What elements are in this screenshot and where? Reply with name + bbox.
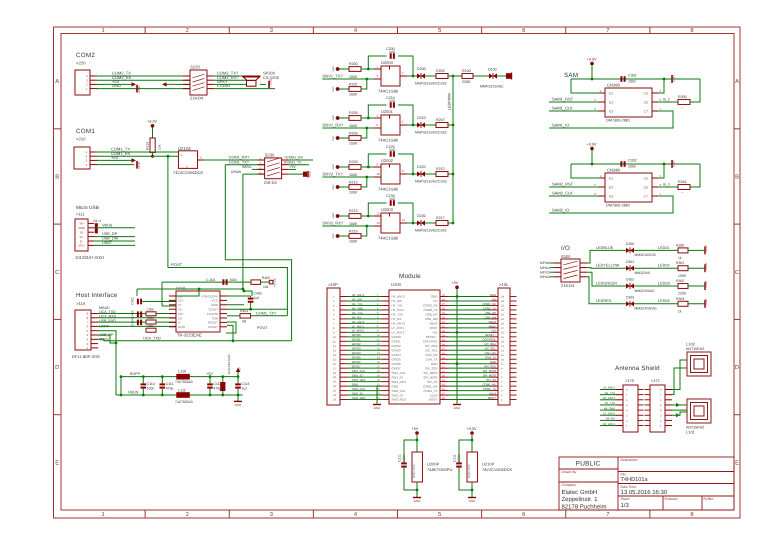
svg-text:COM1_TX?: COM1_TX? — [256, 311, 276, 315]
module pin row 3 — [348, 304, 382, 306]
svg-text:MM3Z16VC/D: MM3Z16VC/D — [635, 253, 657, 257]
svg-text:C113: C113 — [242, 382, 250, 386]
wire host top — [137, 288, 243, 290]
wire gate out — [400, 124, 407, 126]
svg-text:Module: Module — [399, 273, 421, 280]
svg-text:I2C_SCL: I2C_SCL — [485, 347, 497, 351]
resistor R402 — [146, 312, 156, 316]
resistor R112 — [95, 223, 98, 233]
wire to L101 c — [672, 412, 687, 415]
svg-text:COM1_TX?: COM1_TX? — [229, 160, 249, 164]
buffer U210P — [467, 452, 478, 482]
svg-text:Date Time:: Date Time: — [621, 485, 637, 489]
svg-text:C1+: C1+ — [178, 299, 184, 303]
svg-text:PUBLIC: PUBLIC — [576, 460, 601, 467]
wire rail bottom — [116, 394, 243, 396]
svg-text:>210: >210 — [76, 137, 86, 142]
wire LED04 — [634, 303, 678, 305]
module pin row 4 — [348, 309, 382, 311]
capacitor C111 — [160, 383, 166, 385]
svg-text:D200: D200 — [417, 67, 426, 71]
svg-text:+3.3V: +3.3V — [147, 120, 157, 124]
svg-text:11: 11 — [402, 218, 405, 222]
svg-text:GND: GND — [352, 383, 358, 387]
ground SAM2 cap — [671, 160, 673, 168]
svg-text:VBUS: VBUS — [128, 391, 139, 395]
ground port S230 — [289, 173, 303, 175]
svg-text:R301: R301 — [676, 261, 684, 265]
wire loop R300 — [690, 79, 700, 102]
input flag U2000 pin C — [336, 87, 340, 91]
svg-text:100K: 100K — [349, 75, 358, 79]
svg-text:RefNo:: RefNo: — [704, 497, 715, 501]
svg-text:GND: GND — [431, 362, 439, 366]
svg-text:E2: E2 — [609, 185, 613, 189]
wire knot b — [226, 322, 236, 333]
svg-text:CONTROL: CONTROL — [423, 340, 438, 344]
resistor R301 — [678, 185, 690, 190]
svg-text:HF_TX2: HF_TX2 — [392, 313, 404, 317]
wire gate out — [400, 222, 407, 224]
svg-text:100K: 100K — [349, 222, 358, 226]
svg-text:HF_ANT1: HF_ANT1 — [392, 295, 406, 299]
svg-text:100K: 100K — [349, 190, 358, 194]
svg-text:E: E — [735, 460, 739, 466]
svg-text:COM1_TX: COM1_TX — [423, 389, 437, 393]
svg-text:2k2: 2k2 — [441, 228, 447, 232]
svg-text:I2C_SCL: I2C_SCL — [425, 348, 438, 352]
svg-text:MMP3Z16V6C/D: MMP3Z16V6C/D — [415, 180, 441, 184]
module pin row 10 — [348, 336, 382, 338]
svg-text:1u0: 1u0 — [254, 296, 260, 300]
svg-text:LF_ANT1: LF_ANT1 — [603, 386, 615, 390]
wire knot a — [227, 304, 244, 306]
svg-text:R100: R100 — [462, 69, 471, 73]
svg-text:E2: E2 — [609, 100, 613, 104]
connector J110 — [75, 310, 91, 350]
svg-text:D301: D301 — [626, 260, 634, 264]
ground — [136, 85, 138, 93]
wire SAM1 vcc rail — [571, 78, 700, 80]
resistor R300 — [678, 100, 690, 105]
input flag U2000 pin A — [336, 67, 340, 71]
svg-text:+5V: +5V — [412, 427, 419, 431]
svg-text:D+: D+ — [80, 235, 84, 239]
svg-text:100K: 100K — [349, 141, 358, 145]
svg-text:L101: L101 — [686, 429, 696, 434]
svg-text:E1: E1 — [609, 91, 613, 95]
svg-text:SW1_IO: SW1_IO — [352, 374, 363, 378]
svg-text:R206: R206 — [349, 132, 358, 136]
svg-text:LF_ANT2: LF_ANT2 — [603, 411, 615, 415]
svg-text:SH: SH — [79, 222, 83, 226]
wire U210A out — [204, 159, 265, 161]
svg-text:1k: 1k — [678, 256, 682, 260]
capacitor C403 — [137, 311, 139, 317]
svg-text:10k: 10k — [158, 144, 162, 150]
resistor R303 — [678, 301, 688, 306]
module pin row 20 — [348, 381, 382, 383]
pin stubs U300 — [599, 92, 605, 94]
svg-text:+5V0: +5V0 — [332, 213, 335, 219]
wire to L102 a — [672, 360, 687, 390]
svg-text:1n0: 1n0 — [389, 50, 395, 54]
ground LED04 — [704, 300, 706, 308]
svg-text:SW2_IO: SW2_IO — [352, 391, 363, 395]
wire LED01 — [634, 249, 678, 251]
svg-text:GND: GND — [704, 280, 708, 288]
module pin row 22 — [348, 390, 382, 392]
svg-text:GND: GND — [78, 226, 84, 230]
svg-text:GND VCC: GND VCC — [412, 463, 416, 478]
svg-text:LF_ANT2: LF_ANT2 — [352, 329, 364, 333]
svg-text:U2000: U2000 — [381, 60, 394, 65]
wire to L101 b — [672, 409, 687, 411]
svg-text:+5V: +5V — [452, 281, 459, 285]
svg-text:CN30B: CN30B — [607, 82, 620, 87]
buffer U200P — [412, 452, 423, 482]
fan wires to LED rows — [587, 250, 596, 263]
svg-text:LF_ANT2: LF_ANT2 — [392, 331, 405, 335]
svg-text:R401: R401 — [240, 309, 248, 313]
wire SAM2_RST — [549, 186, 598, 188]
module pin row 13 — [348, 349, 382, 351]
svg-text:RESET~: RESET~ — [485, 333, 496, 337]
resistor R213 — [150, 138, 155, 153]
svg-text:SAM: SAM — [564, 72, 578, 79]
svg-text:USBT: USBT — [102, 241, 113, 245]
svg-text:V1OUT: V1OUT — [208, 325, 218, 329]
resistor R216 — [349, 234, 361, 239]
svg-text:COM1_RX: COM1_RX — [482, 383, 496, 387]
wire rc to gate — [361, 226, 367, 236]
svg-text:LEDBLUE: LEDBLUE — [596, 246, 614, 250]
capacitor C230 — [368, 203, 386, 216]
resistor R401 — [240, 314, 251, 319]
svg-text:100n: 100n — [628, 80, 636, 84]
svg-text:742792640: 742792640 — [175, 400, 193, 404]
ground COM1 — [136, 161, 138, 169]
svg-text:R205: R205 — [349, 111, 358, 115]
svg-text:E3: E3 — [609, 194, 613, 198]
resistor R213 — [349, 185, 361, 190]
capacitor C404 — [137, 320, 139, 326]
svg-text:SAM2_RST: SAM2_RST — [552, 181, 574, 186]
ground U210P — [468, 497, 476, 499]
wire rail left vertical — [120, 377, 122, 395]
svg-text:470p: 470p — [166, 387, 174, 391]
input flag U2003 pin C — [336, 234, 340, 238]
svg-text:+3.3V: +3.3V — [467, 427, 477, 431]
capacitor C301 — [620, 161, 622, 167]
svg-text:COM1: COM1 — [76, 128, 95, 135]
svg-text:HF_TX2: HF_TX2 — [605, 401, 616, 405]
svg-text:DRAW: DRAW — [231, 170, 242, 174]
diode D100 — [489, 73, 497, 78]
capacitor C200 — [368, 56, 386, 69]
svg-text:I/O: I/O — [561, 245, 570, 252]
svg-text:U100: U100 — [391, 282, 402, 287]
svg-text:150R: 150R — [678, 274, 687, 278]
svg-text:+5V0: +5V0 — [332, 164, 335, 170]
wire net LEDGREEN — [596, 285, 626, 287]
ground +5V — [453, 404, 461, 406]
svg-text:2: 2 — [186, 27, 189, 34]
wire vertical net3 — [242, 174, 244, 291]
svg-text:GND: GND — [392, 384, 400, 388]
svg-text:R216: R216 — [349, 230, 358, 234]
wire COM2_RX — [97, 79, 190, 81]
svg-text:D303: D303 — [626, 295, 634, 299]
resistor R300 — [678, 248, 688, 253]
wires J110 to transceiver — [98, 313, 176, 315]
svg-text:SPI_SS: SPI_SS — [427, 380, 438, 384]
wire SAM2_IO — [549, 196, 673, 213]
svg-text:C1-: C1- — [178, 308, 183, 312]
svg-text:+3.3V: +3.3V — [587, 57, 597, 61]
svg-text:GPIO5: GPIO5 — [352, 356, 361, 360]
svg-text:DRV2_RX?: DRV2_RX? — [323, 220, 344, 225]
varistor R120 — [220, 382, 225, 391]
svg-text:D: D — [735, 365, 739, 371]
ground SAM1 cap — [671, 75, 673, 83]
svg-text:C403: C403 — [131, 310, 135, 318]
svg-text:10128157-0001: 10128157-0001 — [75, 255, 105, 260]
capacitor C300 — [620, 76, 622, 82]
svg-text:C-401: C-401 — [206, 278, 215, 282]
svg-text:100n: 100n — [457, 454, 461, 462]
wire bus to R100 — [453, 75, 462, 77]
svg-text:C7: C7 — [644, 194, 648, 198]
svg-text:COM2_RX: COM2_RX — [423, 304, 438, 308]
svg-text:+5V: +5V — [111, 155, 119, 160]
ground module left — [377, 386, 382, 404]
svg-text:SAM2_IO: SAM2_IO — [552, 207, 569, 212]
svg-text:R200: R200 — [349, 62, 358, 66]
module pin row 8 — [348, 327, 382, 329]
svg-text:GND: GND — [137, 85, 141, 93]
svg-text:LED4: LED4 — [430, 393, 438, 397]
svg-text:L110: L110 — [178, 369, 186, 373]
svg-text:GND: GND — [211, 303, 219, 307]
wires J110 down — [98, 331, 116, 395]
svg-text:HF_ANT2: HF_ANT2 — [352, 320, 365, 324]
svg-text:VBUS: VBUS — [429, 322, 437, 326]
wire COM2_RX right — [214, 79, 246, 81]
svg-text:CONTROL: CONTROL — [482, 338, 496, 342]
svg-text:R1OUT: R1OUT — [208, 321, 218, 325]
ground U200P — [413, 497, 421, 499]
svg-text:R215: R215 — [349, 209, 358, 213]
svg-text:GND: GND — [235, 403, 243, 407]
svg-text:Micro USB: Micro USB — [76, 205, 99, 211]
svg-text:13.05.2016 16:30: 13.05.2016 16:30 — [621, 489, 668, 496]
frame row ticks — [54, 128, 62, 130]
svg-text:1/3: 1/3 — [621, 502, 630, 509]
svg-text:[COM1_TX: [COM1_TX — [284, 160, 302, 164]
svg-text:DM7300-2881: DM7300-2881 — [606, 203, 630, 207]
wire pin5 up — [658, 79, 664, 93]
svg-text:I6_2: I6_2 — [663, 98, 670, 102]
svg-text:R1+2: R1+2 — [94, 219, 102, 223]
svg-text:MMP3Z16V6C: MMP3Z16V6C — [480, 84, 504, 88]
wire to ground LED02 — [688, 267, 705, 269]
resistor R215 — [349, 214, 361, 219]
svg-text:B: B — [735, 174, 739, 180]
svg-text:7: 7 — [606, 512, 609, 518]
wire COM2_TX right — [214, 75, 242, 77]
connector J10L — [498, 288, 510, 405]
svg-text:R212: R212 — [436, 167, 445, 171]
svg-text:SPI_MOSI: SPI_MOSI — [483, 374, 496, 378]
svg-text:GPIO0: GPIO0 — [392, 335, 402, 339]
wire S230 in2 — [225, 164, 264, 166]
svg-text:Zeppelinstr. 1: Zeppelinstr. 1 — [562, 496, 599, 503]
wire top loop — [162, 281, 251, 283]
svg-text:5: 5 — [438, 28, 441, 34]
wire UCA_TXD bottom — [98, 339, 292, 341]
svg-text:GPIO6: GPIO6 — [392, 362, 402, 366]
wire GND COM1 — [97, 164, 134, 166]
svg-text:>111: >111 — [76, 212, 85, 217]
svg-text:R303: R303 — [676, 297, 684, 301]
svg-text:DRV1_RX?: DRV1_RX? — [323, 122, 344, 127]
module pin row 18 — [348, 372, 382, 374]
svg-text:SPI_SCK: SPI_SCK — [425, 366, 438, 370]
capacitor C112 — [207, 383, 213, 385]
wire LTGND — [214, 88, 275, 90]
zener diode Q200 — [417, 73, 425, 78]
module pin row 2 — [348, 300, 382, 302]
svg-text:GND VCC: GND VCC — [467, 463, 471, 478]
svg-text:C111: C111 — [166, 382, 174, 386]
svg-text:HF_ANT1: HF_ANT1 — [603, 422, 616, 426]
zener diode D301 — [626, 266, 634, 271]
svg-text:>110: >110 — [76, 301, 86, 306]
svg-text:470p: 470p — [214, 387, 222, 391]
svg-text:GND: GND — [332, 135, 335, 141]
speaker SP200 — [242, 75, 261, 77]
svg-text:COM2: COM2 — [76, 52, 95, 59]
svg-text:+5V0: +5V0 — [332, 66, 335, 72]
svg-text:C5: C5 — [644, 176, 648, 180]
svg-text:10: 10 — [377, 172, 381, 176]
capacitor C400 — [248, 298, 254, 300]
wire rail2 — [225, 165, 291, 341]
svg-text:VCC: VCC — [212, 299, 219, 303]
svg-text:VBUS: VBUS — [488, 320, 496, 324]
svg-text:LEDPWM: LEDPWM — [447, 93, 451, 110]
wire net LEDYELLOW — [596, 267, 626, 269]
zener diode Q203 — [417, 220, 425, 225]
svg-text:MMP3Z16V6C/D: MMP3Z16V6C/D — [415, 131, 441, 135]
svg-text:R213: R213 — [349, 181, 358, 185]
svg-text:LED02: LED02 — [658, 264, 670, 268]
svg-text:HF_ANT1: HF_ANT1 — [352, 293, 365, 297]
svg-text:R302: R302 — [676, 279, 684, 283]
wire COM1_RX — [97, 155, 178, 157]
module pin row 1 — [348, 296, 382, 298]
module pin row 15 — [348, 358, 382, 360]
input flag U2003 pin A — [336, 214, 340, 218]
module pin row 21 — [348, 385, 382, 387]
svg-text:SAM1_RST: SAM1_RST — [552, 96, 574, 101]
svg-text:LEDRED: LEDRED — [596, 299, 612, 303]
connector J220 — [75, 70, 90, 95]
svg-text:C301: C301 — [628, 74, 637, 78]
svg-text:2: 2 — [186, 511, 189, 518]
svg-text:HF_DIP: HF_DIP — [392, 299, 403, 303]
svg-text:C: C — [55, 269, 59, 276]
connector J10P — [327, 288, 340, 405]
svg-text:SPI_SCK: SPI_SCK — [484, 365, 496, 369]
wire net LEDRED — [596, 303, 626, 305]
svg-text:GND: GND — [431, 295, 439, 299]
switch S300 — [561, 259, 580, 282]
svg-text:+5V: +5V — [239, 367, 242, 372]
svg-text:CAN_TX: CAN_TX — [485, 356, 496, 360]
svg-text:SPI_MOSI: SPI_MOSI — [423, 375, 437, 379]
svg-text:74HC1G86: 74HC1G86 — [378, 187, 399, 192]
svg-text:LTGND: LTGND — [217, 83, 230, 88]
svg-text:5: 5 — [438, 512, 441, 518]
svg-text:RESET~: RESET~ — [426, 335, 438, 339]
svg-text:3: 3 — [270, 511, 273, 518]
svg-text:+5V0: +5V0 — [332, 115, 335, 121]
wire GND — [97, 88, 190, 90]
svg-text:BUFF: BUFF — [130, 372, 141, 376]
resistor R302 — [678, 284, 688, 289]
svg-text:Company:: Company: — [562, 483, 578, 487]
resistor R301 — [678, 266, 688, 271]
svg-text:DRV1_TX?: DRV1_TX? — [323, 73, 344, 78]
wire USB_DM — [94, 240, 135, 242]
svg-text:S230: S230 — [265, 152, 275, 157]
resistor R217 — [436, 221, 448, 226]
svg-text:100n: 100n — [147, 387, 155, 391]
svg-text:R220: R220 — [349, 160, 358, 164]
svg-text:HF_RX: HF_RX — [392, 317, 402, 321]
svg-text:1n0: 1n0 — [389, 197, 395, 201]
svg-text:+5V: +5V — [491, 329, 496, 333]
wire COM1_TX — [97, 151, 178, 153]
wire gate out — [400, 75, 407, 77]
svg-text:HF_TX2: HF_TX2 — [352, 311, 363, 315]
svg-text:BOOT: BOOT — [488, 396, 496, 400]
svg-text:100K: 100K — [349, 239, 358, 243]
svg-text:MPIO2: MPIO2 — [540, 270, 550, 274]
svg-text:DM7300-2881: DM7300-2881 — [606, 118, 630, 122]
svg-text:2k2: 2k2 — [441, 179, 447, 183]
svg-text:GND: GND — [704, 244, 708, 252]
wire host top2 — [243, 291, 252, 296]
wire SAM2_CLK — [549, 195, 598, 197]
svg-text:742792640: 742792640 — [175, 380, 193, 384]
svg-text:GND: GND — [704, 298, 708, 306]
resistor R403 — [146, 320, 156, 324]
svg-text:LED03: LED03 — [658, 281, 670, 285]
svg-text:D230: D230 — [417, 214, 426, 218]
svg-text:GND: GND — [672, 160, 676, 168]
resistor R200 — [349, 67, 361, 72]
svg-text:HF_TX1: HF_TX1 — [392, 304, 404, 308]
svg-text:GND: GND — [308, 171, 312, 177]
wire rail top — [121, 376, 238, 378]
svg-text:219-D4: 219-D4 — [264, 180, 278, 185]
module pin row 6 — [348, 318, 382, 320]
svg-text:C6: C6 — [644, 185, 648, 189]
svg-text:MM3Z3V6AC: MM3Z3V6AC — [635, 289, 656, 293]
